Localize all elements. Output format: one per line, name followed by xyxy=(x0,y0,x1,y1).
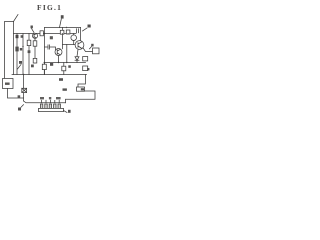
wire box to connector staircase xyxy=(66,91,96,103)
capacitor C3 box xyxy=(42,64,46,69)
label 5 lead xyxy=(21,105,24,108)
transistor Q4 internals xyxy=(34,34,36,38)
label 1 lead xyxy=(32,29,35,33)
label T1 xyxy=(21,35,23,38)
capacitor C1 xyxy=(48,45,50,49)
resistor R1 xyxy=(15,47,18,52)
node dot upper bus xyxy=(66,27,67,28)
transistor Q4 xyxy=(32,33,37,38)
wire vertical branch 2 xyxy=(22,34,24,75)
node dot Q1 emitter xyxy=(58,62,59,63)
transistor Q3 internals xyxy=(78,42,82,48)
label 6 xyxy=(61,15,64,18)
node dot mid bus xyxy=(66,62,67,63)
label 13 xyxy=(31,65,34,68)
wire diode to bus xyxy=(76,61,78,63)
label C1 xyxy=(50,36,53,39)
wire box A to lower bus xyxy=(63,33,69,36)
connector pin 3 xyxy=(49,104,51,108)
connector ticks xyxy=(42,100,60,102)
component box A oscillator xyxy=(60,30,64,34)
wire vertical branch 4 xyxy=(34,34,36,64)
label 1 xyxy=(31,26,33,29)
bus lower rail xyxy=(14,33,77,35)
label 3 xyxy=(88,25,91,28)
transistor Q1 internals xyxy=(57,49,60,55)
connector pin 4 xyxy=(54,104,56,108)
wire lead diagonal top-left xyxy=(14,15,19,22)
wire Q1 collector up xyxy=(62,35,64,49)
node dot on drop xyxy=(23,88,24,89)
connector pin 2 xyxy=(45,104,47,108)
wire vertical branch 1 xyxy=(16,34,18,75)
label 16 xyxy=(68,65,71,68)
label 12 lead xyxy=(18,65,22,70)
svg-text:FIG.1: FIG.1 xyxy=(37,3,62,12)
label 14 mark xyxy=(18,95,21,98)
resistor R2 xyxy=(27,40,31,45)
wire step to connector rail xyxy=(24,101,66,103)
label C3 xyxy=(50,63,53,66)
title FIG. 1 xyxy=(37,3,62,12)
wire Q3 collector right xyxy=(83,48,93,52)
wire Q3 emitter down xyxy=(77,49,78,56)
label 3 lead xyxy=(83,28,88,31)
label 12 xyxy=(19,61,22,64)
connector bar xyxy=(39,108,64,111)
label 34 xyxy=(59,78,63,81)
wire vertical branch 3 xyxy=(28,34,30,75)
X-box diagonals xyxy=(22,88,27,92)
component box on bus xyxy=(40,31,43,36)
label 4 xyxy=(91,44,93,47)
component box B oscillator xyxy=(66,30,70,34)
transistor Q1 xyxy=(55,49,62,56)
wire left drop to bottom xyxy=(23,75,25,102)
resistor R7 xyxy=(83,57,88,61)
bus mid right xyxy=(45,62,86,64)
wire right drop xyxy=(78,75,85,88)
transistor Q3 xyxy=(75,41,84,50)
label 17 xyxy=(63,88,67,90)
wire resistor drop to mid bus xyxy=(66,45,68,63)
box DC lower right xyxy=(77,87,85,91)
resistor R4 xyxy=(33,58,37,63)
AC source box B1 xyxy=(3,79,14,89)
component X-box on left drop xyxy=(22,88,27,92)
load box right xyxy=(93,48,100,54)
wire vertical branch 5 xyxy=(44,28,46,75)
diode D1 xyxy=(75,57,79,60)
label 11 xyxy=(20,48,22,51)
label 5 xyxy=(18,108,21,111)
label 4 lead xyxy=(90,47,92,49)
label 6 lead xyxy=(60,19,62,28)
node dot ground bus xyxy=(23,74,24,75)
wire capacitor to Q1 xyxy=(50,47,56,50)
label ac inside box xyxy=(5,83,10,85)
wire Q3 base left xyxy=(63,44,76,46)
wire from AC box down then right xyxy=(8,89,24,99)
label DG xyxy=(56,97,61,99)
connector pin 5 xyxy=(58,104,60,108)
label DC inside xyxy=(81,88,84,90)
wire top rail corner down xyxy=(80,28,82,41)
label B xyxy=(49,97,51,99)
label a xyxy=(87,68,89,70)
label C4 xyxy=(40,97,44,99)
wire osc drop a xyxy=(62,28,64,31)
transformer T1 mark xyxy=(16,35,19,38)
capacitor C6 box xyxy=(62,66,66,71)
wire C3 leads xyxy=(43,63,45,75)
label 2 xyxy=(28,50,31,53)
label 9 lead xyxy=(64,111,68,113)
bus upper rail xyxy=(45,27,81,29)
resistor R3 xyxy=(33,41,37,46)
ground bus xyxy=(12,74,87,76)
node dot C3 top xyxy=(44,62,45,63)
label 9 xyxy=(68,110,71,113)
node dot bus2 xyxy=(44,33,45,34)
resistor R8 xyxy=(83,66,88,71)
wire Q1 emitter down xyxy=(58,56,60,63)
wire Q2 leads xyxy=(73,34,75,45)
wire plug right prong down xyxy=(13,22,15,75)
capacitor C5 between buses xyxy=(77,29,79,33)
plug box top-left xyxy=(5,22,14,79)
wire C6 leads xyxy=(63,63,65,75)
wire capacitor branch xyxy=(45,46,48,48)
node dot xyxy=(22,46,23,47)
connector pin 1 xyxy=(40,104,42,108)
transistor Q2 xyxy=(71,35,77,41)
